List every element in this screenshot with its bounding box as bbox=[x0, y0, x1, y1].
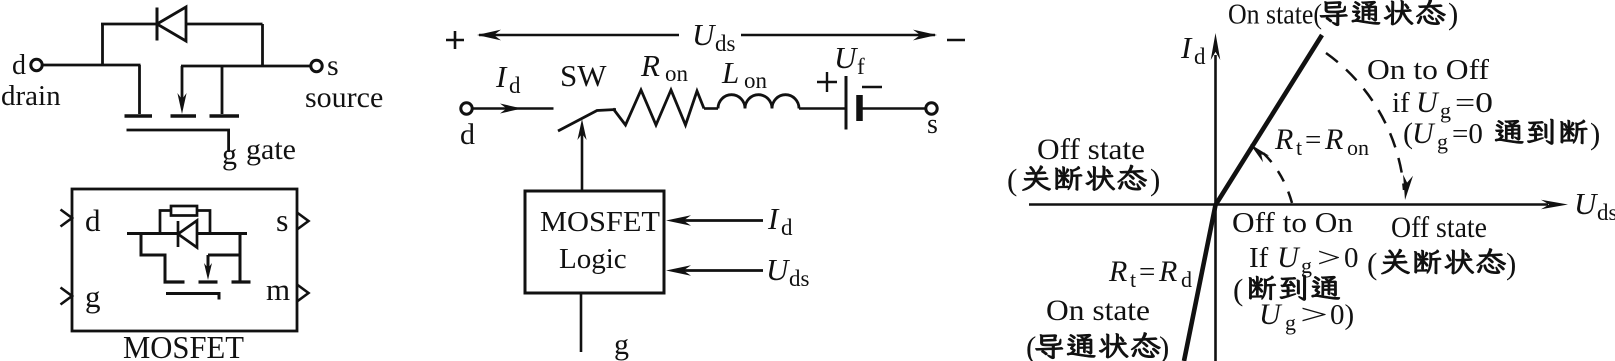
svg-text:U: U bbox=[834, 40, 859, 75]
icon rail right bbox=[197, 232, 247, 235]
svg-text:U: U bbox=[1259, 298, 1283, 331]
arrow Id input bbox=[680, 219, 763, 222]
mosfet channel bar right bbox=[210, 114, 240, 117]
svg-text:>: > bbox=[1300, 299, 1328, 331]
icon rail left bbox=[127, 232, 178, 235]
arrow Id current bbox=[500, 104, 522, 114]
axis Id vertical bbox=[1214, 55, 1217, 361]
svg-text:gate: gate bbox=[246, 133, 296, 166]
battery Uf plus bbox=[817, 72, 837, 92]
arrow Uds input bbox=[680, 269, 763, 272]
icon resistor right loop bbox=[197, 211, 210, 234]
battery Uf long plate bbox=[845, 76, 848, 130]
label Id input bbox=[767, 201, 793, 240]
label Lon bbox=[721, 55, 768, 93]
wire gate lead logic bbox=[580, 293, 583, 352]
svg-text:MOSFET: MOSFET bbox=[123, 329, 244, 361]
icon drain step bbox=[141, 232, 165, 281]
svg-text:(: ( bbox=[1233, 272, 1243, 307]
icon channel bar left bbox=[164, 280, 185, 283]
svg-text:U: U bbox=[1416, 86, 1440, 119]
wire switch control bbox=[581, 130, 584, 191]
battery Uf short plate bbox=[856, 95, 863, 121]
label Uds top bbox=[692, 17, 736, 56]
icon channel bar right bbox=[232, 280, 251, 283]
svg-text:R: R bbox=[640, 48, 660, 83]
arrow off-to-on head bbox=[1250, 144, 1269, 162]
svg-text:g: g bbox=[1437, 129, 1448, 154]
curve on-state line bbox=[1184, 35, 1322, 361]
svg-text:I: I bbox=[767, 201, 780, 236]
svg-text:drain: drain bbox=[1, 80, 61, 112]
svg-text:On to Off: On to Off bbox=[1367, 54, 1489, 86]
port chevron s output bbox=[297, 213, 309, 230]
mosfet substrate arrow down bbox=[177, 93, 186, 114]
wire source horizontal bbox=[181, 65, 312, 68]
label on-state-bottom cjk bbox=[1026, 330, 1169, 361]
label On state top bbox=[1228, 0, 1458, 31]
svg-text:R: R bbox=[1158, 255, 1177, 288]
svg-text:d: d bbox=[781, 215, 793, 240]
svg-text:R: R bbox=[1108, 255, 1127, 288]
label If Ug>0 bbox=[1249, 241, 1359, 278]
svg-text:MOSFET: MOSFET bbox=[540, 206, 660, 238]
svg-text:=: = bbox=[1139, 256, 1155, 288]
label off-to-on cjk bbox=[1233, 272, 1340, 307]
svg-text:On state(: On state( bbox=[1228, 0, 1322, 31]
icon source step bbox=[208, 232, 240, 281]
svg-text:R: R bbox=[1324, 123, 1343, 156]
wire diode right riser bbox=[261, 24, 264, 67]
wire inductor to battery bbox=[799, 107, 845, 110]
icon diode cathode bar bbox=[177, 221, 180, 247]
svg-text:L: L bbox=[721, 55, 739, 90]
svg-text:g: g bbox=[1301, 253, 1312, 278]
node d terminal circle bbox=[31, 59, 42, 70]
svg-text:g: g bbox=[85, 279, 101, 314]
label off-state-right cjk bbox=[1367, 246, 1516, 281]
wire diode left riser bbox=[101, 24, 104, 65]
svg-text:): ) bbox=[1590, 116, 1600, 151]
wire source middle stub bbox=[181, 66, 184, 100]
svg-text:Off to On: Off to On bbox=[1232, 207, 1354, 239]
icon channel bar middle bbox=[199, 280, 218, 283]
wire d to switch bbox=[473, 107, 554, 110]
diode D1 triangle bbox=[157, 7, 186, 41]
svg-text:Logic: Logic bbox=[559, 243, 627, 275]
svg-text:d: d bbox=[460, 118, 475, 151]
svg-text:g: g bbox=[1285, 310, 1296, 335]
svg-text:d: d bbox=[509, 73, 521, 98]
svg-text:U: U bbox=[1277, 241, 1301, 274]
label Ug=0 on-to-off cjk bbox=[1403, 116, 1600, 154]
svg-text:=: = bbox=[1305, 124, 1321, 156]
svg-text:I: I bbox=[1180, 30, 1193, 65]
svg-text:ds: ds bbox=[1597, 200, 1615, 225]
svg-text:0): 0) bbox=[1330, 299, 1354, 331]
arrow Uds left bbox=[477, 30, 501, 41]
svg-text:U: U bbox=[692, 17, 717, 52]
svg-text:): ) bbox=[1448, 0, 1458, 31]
svg-text:on: on bbox=[744, 68, 768, 93]
mosfet channel bar left bbox=[125, 114, 153, 117]
label Ron bbox=[640, 48, 689, 86]
axis Uds horizontal bbox=[1029, 203, 1548, 206]
block MOSFET outline bbox=[72, 189, 297, 331]
label off-state-left cjk bbox=[1007, 162, 1160, 197]
wire drain down to channel bbox=[138, 65, 141, 114]
block MOSFET Logic outline bbox=[525, 191, 664, 293]
label Rt=Rd bbox=[1108, 255, 1192, 292]
label minus Uds bbox=[947, 39, 965, 42]
svg-text:(: ( bbox=[1367, 246, 1377, 281]
port chevron d input bbox=[61, 210, 73, 227]
svg-text:SW: SW bbox=[560, 58, 607, 93]
svg-text:=0: =0 bbox=[1452, 118, 1483, 150]
wire diode top left bbox=[101, 23, 157, 26]
svg-text:s: s bbox=[276, 202, 288, 238]
svg-text:Off state: Off state bbox=[1391, 211, 1487, 244]
label Rt=Ron bbox=[1274, 123, 1369, 160]
svg-text:d: d bbox=[85, 203, 101, 238]
wire source right stub bbox=[221, 66, 224, 114]
wire battery to s bbox=[862, 107, 926, 110]
svg-text:g: g bbox=[614, 328, 629, 361]
svg-text:): ) bbox=[1159, 330, 1169, 361]
svg-text:if: if bbox=[1392, 87, 1410, 119]
port chevron m output bbox=[297, 285, 309, 302]
svg-text:m: m bbox=[266, 272, 290, 307]
label Id current bbox=[495, 59, 521, 98]
svg-text:ds: ds bbox=[789, 266, 810, 291]
resistor Ron zigzag bbox=[613, 90, 704, 125]
svg-text:=0: =0 bbox=[1455, 87, 1493, 119]
svg-text:If: If bbox=[1249, 242, 1269, 274]
svg-text:d: d bbox=[1194, 44, 1206, 69]
icon substrate arrow bbox=[204, 263, 212, 280]
wire drain horizontal bbox=[43, 64, 141, 67]
wire gate lead bbox=[227, 130, 230, 152]
svg-text:>: > bbox=[1317, 242, 1341, 274]
svg-text:Off state: Off state bbox=[1037, 133, 1145, 166]
label Ug>0 close bbox=[1259, 298, 1354, 335]
svg-text:(: ( bbox=[1007, 162, 1017, 197]
svg-text:R: R bbox=[1274, 123, 1293, 156]
svg-text:): ) bbox=[1150, 162, 1160, 197]
icon resistor box bbox=[171, 206, 197, 216]
battery Uf minus bbox=[862, 86, 882, 88]
label Uf bbox=[834, 40, 865, 79]
svg-text:s: s bbox=[327, 49, 339, 82]
node d terminal circuit bbox=[461, 103, 472, 114]
svg-text:f: f bbox=[857, 54, 865, 79]
icon resistor left loop bbox=[160, 211, 171, 234]
diode D1 cathode bar bbox=[156, 8, 159, 41]
svg-text:source: source bbox=[305, 81, 383, 114]
mosfet gate plate bbox=[127, 129, 231, 132]
svg-text:on: on bbox=[665, 61, 689, 86]
arrow Uds right bbox=[741, 34, 935, 37]
label if Ug=0 bbox=[1392, 86, 1493, 123]
node s terminal circle bbox=[311, 60, 322, 71]
wire diode top right bbox=[185, 23, 263, 26]
svg-text:t: t bbox=[1130, 267, 1136, 292]
curve dashed arc off-to-on bbox=[1261, 151, 1292, 203]
svg-text:): ) bbox=[1506, 246, 1516, 281]
svg-text:d: d bbox=[1181, 267, 1192, 292]
svg-text:g: g bbox=[222, 138, 237, 171]
icon diode triangle bbox=[178, 221, 197, 248]
mosfet channel bar middle bbox=[171, 114, 197, 117]
svg-text:d: d bbox=[12, 50, 26, 81]
wire resistor to inductor bbox=[704, 107, 718, 110]
svg-text:ds: ds bbox=[715, 31, 736, 56]
icon gate line bbox=[166, 294, 219, 300]
node s terminal circuit bbox=[926, 103, 937, 114]
svg-text:g: g bbox=[1440, 98, 1451, 123]
switch SW blade bbox=[558, 110, 616, 132]
label Uds input bbox=[766, 252, 810, 291]
svg-text:0: 0 bbox=[1344, 242, 1359, 274]
svg-text:On state: On state bbox=[1046, 294, 1150, 327]
label Id axis bbox=[1180, 30, 1206, 69]
svg-text:on: on bbox=[1347, 135, 1369, 160]
svg-text:U: U bbox=[1574, 186, 1599, 221]
svg-text:U: U bbox=[1412, 117, 1436, 150]
curve dashed arc on-to-off bbox=[1326, 53, 1404, 190]
arrow on-to-off head bbox=[1403, 175, 1413, 200]
arrow switch control head bbox=[577, 119, 586, 140]
port chevron g input bbox=[61, 288, 73, 305]
inductor Lon bbox=[718, 95, 799, 109]
label plus Uds bbox=[446, 31, 464, 49]
svg-text:(: ( bbox=[1026, 330, 1036, 361]
svg-text:I: I bbox=[495, 59, 508, 94]
svg-text:t: t bbox=[1296, 135, 1302, 160]
svg-text:U: U bbox=[766, 252, 791, 287]
svg-text:s: s bbox=[927, 109, 938, 140]
label Uds axis bbox=[1574, 186, 1615, 225]
